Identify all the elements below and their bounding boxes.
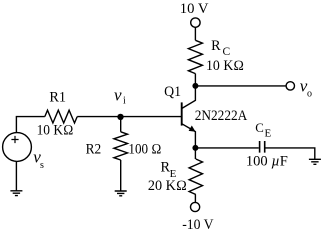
svg-text:R1: R1 <box>49 90 66 106</box>
svg-text:-10 V: -10 V <box>182 217 214 233</box>
svg-text:o: o <box>307 88 312 99</box>
svg-text:C: C <box>223 46 231 58</box>
svg-text:s: s <box>40 160 44 171</box>
svg-text:10 KΩ: 10 KΩ <box>206 58 244 74</box>
svg-text:R2: R2 <box>86 142 102 158</box>
svg-text:Q1: Q1 <box>164 84 181 100</box>
svg-text:10 V: 10 V <box>180 1 209 17</box>
svg-text:v: v <box>114 85 122 104</box>
svg-text:100 µF: 100 µF <box>246 154 288 170</box>
svg-text:C: C <box>255 121 264 135</box>
svg-text:R: R <box>211 38 221 54</box>
svg-text:E: E <box>265 128 272 140</box>
svg-text:20 KΩ: 20 KΩ <box>148 178 187 194</box>
svg-text:i: i <box>123 96 126 107</box>
svg-text:2N2222A: 2N2222A <box>195 108 248 124</box>
svg-text:10 KΩ: 10 KΩ <box>37 123 74 139</box>
svg-text:E: E <box>170 168 177 180</box>
svg-text:100 Ω: 100 Ω <box>128 141 161 157</box>
